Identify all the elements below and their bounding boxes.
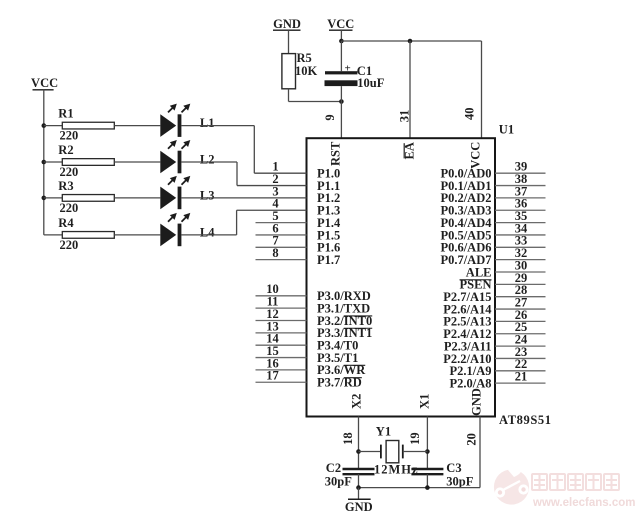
node junction R5/C1/RST [339,99,344,104]
pin number 12 [266,307,279,321]
svg-text:10K: 10K [295,64,318,78]
wire pin 2 stub [237,185,307,187]
svg-text:RST: RST [328,141,342,166]
crystal Y1 [359,441,428,463]
pin label PSEN [460,278,492,292]
node ground rail / C2 [356,485,361,490]
wire bottom ground rail [359,487,481,489]
resistor R1 [62,122,114,129]
pin label P2.6/A14 [443,302,492,316]
label AT89S51 [499,413,552,427]
pin number 22 [515,357,528,371]
pin number 2 [272,172,278,186]
wire pin 33 stub [495,246,546,248]
label 12MHz [374,463,419,477]
capacitor C2 [343,469,375,474]
svg-text:17: 17 [266,369,279,383]
wire X2 pin 18 [358,417,360,469]
pin number 23 [515,345,528,359]
svg-text:VCC: VCC [468,142,482,169]
wire pin 27 stub [495,308,546,310]
svg-text:Y1: Y1 [376,425,391,439]
wire pin 21 stub [495,382,546,384]
svg-text:L3: L3 [200,189,215,203]
pin number 32 [515,246,528,260]
label R4 [58,216,74,230]
label R2 [58,143,73,157]
wire pin 28 stub [495,296,546,298]
wire C1 to RST node and pin 9 [340,86,342,138]
pin number 24 [515,333,528,347]
pin label P0.7/AD7 [440,253,491,267]
pin label P1.1 [317,179,340,193]
wire VCC rail to R2 [44,161,63,163]
label R5 [297,51,312,65]
svg-text:220: 220 [60,238,79,252]
capacitor C3 [411,469,443,474]
label C2 [326,461,341,475]
wire VCC stem [340,30,342,41]
wire pin 25 stub [495,333,546,335]
pin label X1 [418,394,432,409]
wire GND pin 20 [479,417,481,488]
node ground rail / C3 [425,485,430,490]
wire pin 12 stub [256,320,307,322]
pin number 13 [266,319,279,333]
pin label P0.5/AD5 [440,228,491,242]
wire pin 6 stub [256,234,307,236]
wire pin 10 stub [256,295,307,297]
node VCC rail / R3 [42,196,47,201]
svg-text:40: 40 [463,107,477,120]
pin number 26 [515,308,528,322]
wire C3 to ground rail [426,474,428,487]
pin label P0.3/AD3 [440,204,491,218]
pin label P1.0 [317,167,340,181]
svg-text:L4: L4 [200,226,215,240]
pin label P2.3/A11 [444,339,492,353]
wire pin 29 stub [495,283,546,285]
wire VCC rail to R3 [44,197,63,199]
wire R2 to LED L2 [114,161,160,163]
pin label P2.4/A12 [443,327,491,341]
LED L3 [160,176,190,209]
pin label EA (overline) [402,142,416,159]
svg-text:L1: L1 [200,116,215,130]
pin label P2.0/A8 [449,376,491,390]
pin number 40 [463,107,477,120]
svg-text:L2: L2 [200,153,215,167]
pin number 29 [515,271,528,285]
svg-text:18: 18 [341,432,355,445]
wire pin 22 stub [495,370,546,372]
svg-text:www.elecfans.com: www.elecfans.com [532,497,635,509]
pin label P1.6 [317,241,340,255]
label L2 [200,153,215,167]
svg-text:220: 220 [60,165,79,179]
wire pin 26 stub [495,320,546,322]
wire L1 to pin 1 [181,126,254,174]
pin number 27 [515,295,528,309]
pin label P0.4/AD4 [440,216,492,230]
svg-text:GND: GND [273,17,301,31]
label Y1 [376,425,391,439]
label L1 [200,116,215,130]
pin number 35 [515,209,528,223]
wire pin 38 stub [495,185,546,187]
svg-text:30pF: 30pF [446,474,473,488]
pin number 39 [515,160,528,174]
wire pin 3 stub [256,197,307,199]
wire pin 23 stub [495,357,546,359]
pin number 14 [266,332,279,346]
label R3 [58,179,73,193]
resistor R3 [62,195,114,202]
pin number 11 [267,295,279,309]
wire pin 8 stub [256,259,307,261]
pin number 28 [515,283,528,297]
pin label P2.5/A13 [443,315,491,329]
label R1 [58,107,73,121]
node VCC rail / EA branch [408,39,413,44]
wire R3 to LED L3 [114,197,160,199]
pin number 17 [266,369,279,383]
wire L3 to pin 3 [181,197,256,199]
pin number 38 [515,172,528,186]
pin number 7 [272,234,278,248]
LED L4 [160,213,190,246]
label U1 [499,123,514,137]
wire pin 16 stub [256,369,307,371]
wire VCC rail to pin 40 [481,41,483,138]
value 220 (R3) [60,201,79,215]
wire L4 to pin 4 [181,210,236,235]
pin label P3.3/INT1 [317,326,372,340]
wire pin 34 stub [495,234,546,236]
wire left VCC rail [43,90,45,235]
svg-text:C2: C2 [326,461,341,475]
label L4 [200,226,215,240]
pin label P1.7 [317,253,340,267]
wire pin 14 stub [256,344,307,346]
resistor R4 [62,232,114,239]
svg-text:AT89S51: AT89S51 [499,413,552,427]
value 30pF (C3) [446,474,473,488]
power symbol VCC (top) [327,17,354,31]
pin number 36 [515,197,528,211]
pin label RST [328,141,342,166]
pin label P3.5/T1 [317,351,358,365]
wire GND to R5 [288,30,290,53]
wire pin 1 stub [254,172,306,174]
pin number 9 [323,114,337,120]
pin number 15 [266,344,279,358]
LED L1 [160,104,190,137]
svg-text:VCC: VCC [327,17,354,31]
svg-text:30pF: 30pF [325,474,352,488]
wire pin 4 stub [237,209,307,211]
pin label P3.6/WR [317,363,366,377]
pin number 4 [272,197,279,211]
svg-text:8: 8 [272,246,278,260]
pin number 8 [272,246,278,260]
svg-text:P1.7: P1.7 [317,253,340,267]
svg-text:220: 220 [60,201,79,215]
svg-text:X1: X1 [418,394,432,409]
pin number 6 [272,221,278,235]
wire pin 7 stub [256,246,307,248]
wire EA pin 31 [409,41,411,138]
resistor R5 [282,54,296,89]
power symbol GND (bottom) [345,488,373,514]
pin number 3 [272,184,278,198]
pin number 5 [272,209,278,223]
label L3 [200,189,215,203]
wire pin 37 stub [495,197,546,199]
LED L2 [160,140,190,173]
op IC U1 AT89S51 body [307,138,496,416]
value 30pF (C2) [325,474,352,488]
pin label P2.2/A10 [443,352,491,366]
svg-text:R4: R4 [58,216,74,230]
svg-text:9: 9 [323,114,337,120]
svg-text:10uF: 10uF [357,76,384,90]
svg-text:R3: R3 [58,179,73,193]
svg-text:220: 220 [60,129,79,143]
pin label P1.3 [317,204,340,218]
pin number 1 [272,160,278,174]
wire L2 to pin 2 [181,162,237,186]
svg-text:12MHz: 12MHz [374,463,419,477]
pin label P2.7/A15 [443,290,491,304]
node VCC rail / R1 [42,123,47,128]
pin label P3.4/T0 [317,339,358,353]
wire pin 15 stub [256,357,307,359]
wire pin 35 stub [495,222,546,224]
pin label ALE [466,265,492,279]
label C1 [357,64,372,78]
resistor R2 [62,159,114,166]
pin label P0.6/AD6 [440,241,491,255]
wire pin 17 stub [256,381,307,383]
pin number 10 [266,282,279,296]
wire VCC rail to C1 [340,41,342,71]
pin number 18 [341,432,355,445]
wire pin 11 stub [256,307,307,309]
wire X1 pin 19 [426,417,428,469]
wire pin 39 stub [495,172,546,174]
value 220 (R4) [60,238,79,252]
value 10uF [357,76,384,90]
pin label P1.4 [317,216,341,230]
wire VCC rail to R1 [44,125,63,127]
pin label P3.2/INT0 [317,314,372,328]
pin label P0.0/AD0 [440,167,491,181]
svg-text:21: 21 [515,370,528,384]
svg-text:VCC: VCC [31,76,58,90]
wire pin 5 stub [256,222,307,224]
capacitor C1 (polarized) [325,63,358,87]
svg-text:P2.0/A8: P2.0/A8 [449,376,491,390]
svg-text:U1: U1 [499,123,514,137]
wire pin 36 stub [495,209,546,211]
wire R5 bottom to RST node [289,89,342,102]
pin label GND (pin 20) [469,388,483,416]
value 220 (R2) [60,165,79,179]
pin number 37 [515,184,528,198]
value 220 (R1) [60,129,79,143]
pin label P1.2 [317,191,340,205]
node X1 / crystal [425,449,430,454]
svg-text:R5: R5 [297,51,312,65]
svg-text:R2: R2 [58,143,73,157]
pin label VCC (pin 40) [468,142,482,169]
svg-text:+: + [344,63,350,75]
pin label P2.1/A9 [449,364,491,378]
wire pin 32 stub [495,259,546,261]
pin label P0.2/AD2 [440,191,491,205]
svg-text:31: 31 [397,110,411,123]
pin label P3.0/RXD [317,289,371,303]
svg-text:C3: C3 [446,461,461,475]
pin number 30 [515,258,528,272]
value 10K [295,64,318,78]
pin label P3.1/TXD [317,301,370,315]
pin number 34 [515,221,528,235]
pin number 16 [266,356,279,370]
wire R4 to LED L4 [114,234,160,236]
node X2 / crystal [356,449,361,454]
power symbol GND (top) [273,17,301,31]
svg-text:R1: R1 [58,107,73,121]
wire pin 30 stub [495,271,546,273]
pin number 19 [408,432,422,445]
pin label P1.5 [317,228,340,242]
svg-text:19: 19 [408,432,422,445]
svg-text:20: 20 [464,433,478,446]
pin label X2 [350,394,364,409]
wire VCC rail to R4 [44,234,63,236]
pin number 33 [515,234,528,248]
pin label P3.7/RD [317,376,362,390]
node VCC rail left [339,39,344,44]
wire R1 to LED L1 [114,125,160,127]
pin number 20 [464,433,478,446]
wire C2 to ground rail [358,474,360,487]
pin number 25 [515,320,528,334]
svg-text:X2: X2 [350,394,364,409]
decorative watermark [494,465,636,509]
pin number 31 [397,110,411,123]
pin label P0.1/AD1 [440,179,491,193]
wire pin 24 stub [495,345,546,347]
wire pin 13 stub [256,332,307,334]
pin number 21 [515,370,528,384]
svg-text:GND: GND [345,500,373,514]
svg-text:GND: GND [469,388,483,416]
node VCC rail / R2 [42,160,47,165]
label C3 [446,461,461,475]
wire VCC rail [341,40,481,42]
power symbol VCC (left) [31,76,58,90]
